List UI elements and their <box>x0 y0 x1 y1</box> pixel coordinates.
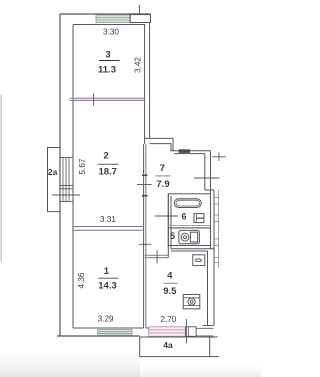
door jamb marks room 2 door <box>142 174 148 176</box>
corridor/kitchen magenta partition <box>145 255 169 257</box>
svg-text:5: 5 <box>170 231 175 241</box>
tick on kitchen partition <box>156 250 158 263</box>
kitchen sink <box>193 255 205 266</box>
svg-text:2: 2 <box>104 151 109 162</box>
svg-text:4: 4 <box>167 270 173 281</box>
outer wall: bottom, inner line <box>73 327 144 329</box>
svg-text:9.5: 9.5 <box>163 286 177 297</box>
balcony door/window block in left wall <box>52 157 80 201</box>
room 1 number label <box>98 266 118 292</box>
kitchen stove <box>183 295 200 309</box>
svg-text:1: 1 <box>104 266 110 277</box>
balcony 4a <box>140 337 219 357</box>
svg-text:6: 6 <box>181 212 186 222</box>
svg-text:3.29: 3.29 <box>98 314 114 323</box>
serration ticks on axis <box>214 198 219 263</box>
kitchen right wall inner line <box>207 251 209 326</box>
survey cross at top right <box>212 153 226 162</box>
room 7 number label <box>155 163 170 190</box>
svg-text:3.31: 3.31 <box>100 215 116 224</box>
washbasin <box>194 214 204 223</box>
svg-text:3: 3 <box>105 50 110 61</box>
right wall foot <box>203 325 215 327</box>
entrance door (dark mark) <box>179 149 190 153</box>
svg-text:11.3: 11.3 <box>98 65 116 76</box>
toilet <box>179 230 200 243</box>
interior wall hall/rooms (double vertical x~144) <box>143 144 145 328</box>
door tick room 2 <box>137 184 152 186</box>
bathroom 6 box <box>168 194 210 226</box>
svg-text:14.3: 14.3 <box>98 280 117 291</box>
svg-text:7.9: 7.9 <box>156 179 169 190</box>
partition room2/room1 (double) <box>73 227 144 231</box>
room 4 number label <box>163 270 178 297</box>
kitchen bottom wall + window (pink hatch) <box>146 327 213 337</box>
axis line right of wall <box>218 190 220 268</box>
wall box right of window W3 <box>130 15 150 23</box>
wc bottom wall (double) <box>168 246 214 252</box>
right wall step at y=190 <box>205 189 214 191</box>
partition room3/room2 (magenta) <box>70 98 145 100</box>
outer wall: left, inner line <box>72 25 74 329</box>
label tick room 6 <box>169 215 178 217</box>
wc room 5 box <box>168 228 210 246</box>
door tick room 1 <box>139 243 152 245</box>
main right wall outer line below y=190 <box>213 190 215 326</box>
svg-text:4.36: 4.36 <box>77 272 86 288</box>
room 2 number label <box>98 151 119 178</box>
svg-text:3.30: 3.30 <box>103 28 119 37</box>
partition bath/wc (green double) <box>168 226 210 228</box>
svg-text:4a: 4a <box>163 340 173 350</box>
bathroom door tick <box>155 215 177 217</box>
outer wall: top, inner line <box>73 24 145 26</box>
scan artifact left edge <box>1 95 2 262</box>
outer wall: left, outer line <box>59 14 61 337</box>
inter-apartment wall right of rooms 3 and 2 (double vertical) <box>144 25 146 145</box>
svg-text:2a: 2a <box>48 167 58 177</box>
hall 7 right wall (double) <box>205 151 211 249</box>
dimension tick on partition <box>93 94 95 106</box>
svg-text:7: 7 <box>160 163 165 174</box>
outer wall: bottom, outer line <box>57 335 140 337</box>
door tick right wall of hall 7 <box>194 177 220 179</box>
svg-text:18.7: 18.7 <box>98 166 117 177</box>
window W3 (room 3, top wall) hatch <box>96 15 130 23</box>
svg-text:3.42: 3.42 <box>134 57 143 73</box>
bath block left wall (double) <box>168 194 171 258</box>
balcony 2a <box>48 148 61 212</box>
bathtub <box>174 199 201 208</box>
outer wall: top, outer line <box>60 13 151 15</box>
room 3 number label <box>98 50 119 76</box>
hall 7 top wall (double, stepped) <box>145 138 211 153</box>
svg-text:5.67: 5.67 <box>78 158 87 174</box>
svg-text:2.70: 2.70 <box>160 315 176 324</box>
tick above top wall <box>138 5 140 15</box>
window W1 (room 1, bottom wall) hatch <box>98 330 132 336</box>
tick through kitchen window <box>185 319 187 344</box>
